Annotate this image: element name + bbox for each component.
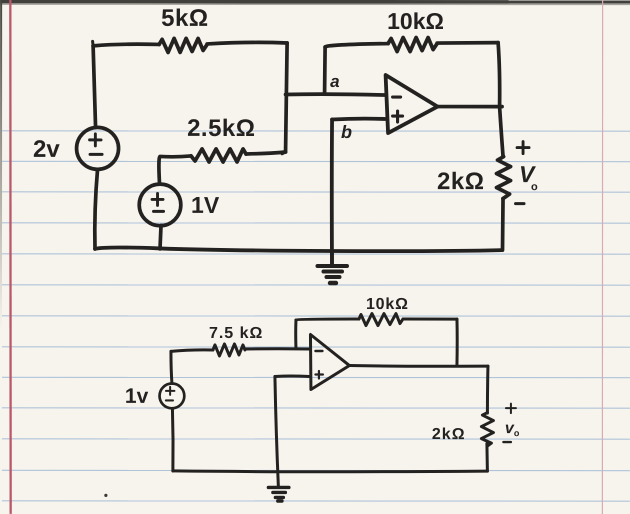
svg-text:2v: 2v — [33, 136, 60, 163]
wire non-inverting vertical down to ground — [275, 376, 279, 487]
svg-text:2.5kΩ: 2.5kΩ — [187, 115, 255, 142]
svg-text:a: a — [330, 72, 339, 91]
wire feedback left vertical up from input — [294, 320, 297, 349]
svg-text:7.5 kΩ: 7.5 kΩ — [209, 325, 263, 342]
wire node b vertical down to ground rail — [330, 120, 334, 266]
V1 plus symbol — [90, 134, 102, 146]
stray pencil dot — [104, 494, 107, 497]
wire right vertical from TR down to 2.5k level — [286, 43, 288, 152]
resistor R4 2kΩ vertical zigzag — [497, 157, 511, 199]
svg-text:o: o — [514, 428, 520, 438]
voltage source V2 1V circle — [139, 184, 181, 226]
wire 10k bottom-left lead — [296, 319, 359, 320]
resistor R1 5kΩ zigzag — [159, 38, 207, 52]
V1 minus symbol — [90, 153, 102, 156]
resistor R5 7.5kΩ zigzag — [213, 344, 245, 356]
wire op-amp U1 output to right vertical — [438, 105, 502, 109]
V3 plus symbol — [166, 387, 175, 395]
label minus of Vo — [516, 202, 524, 205]
wire feedback right vertical down to output — [455, 319, 458, 366]
wire left vertical from TL down to source V1 — [93, 46, 96, 128]
op-amp U2 triangle — [310, 334, 349, 389]
wire below V2 down to bottom rail — [160, 225, 161, 249]
wire below R7 to bottom rail — [485, 444, 489, 472]
wire top-left horizontal (node TL to R1 left lead) — [93, 44, 159, 46]
wire node a horizontal into op-amp inverting input — [286, 92, 386, 97]
svg-text:5kΩ: 5kΩ — [161, 5, 208, 32]
svg-text:2kΩ: 2kΩ — [437, 168, 484, 195]
wire 10k right lead to right feedback vertical — [403, 318, 457, 321]
wire R1 right lead to node TR — [207, 42, 287, 44]
svg-text:1v: 1v — [125, 385, 149, 408]
wire op-amp U2 output to right vertical — [349, 364, 488, 368]
U1 minus input sign — [393, 95, 401, 98]
svg-text:2kΩ: 2kΩ — [432, 426, 466, 443]
svg-text:b: b — [341, 122, 352, 142]
U1 plus input sign — [393, 111, 403, 122]
resistor R7 2kΩ vertical zigzag — [481, 413, 493, 447]
resistor R2 2.5kΩ zigzag — [191, 149, 246, 162]
ground symbol top circuit — [330, 252, 334, 265]
wire R2 left lead and bend down to V2 — [159, 156, 191, 184]
U2 minus input sign — [315, 350, 322, 352]
wire R5 right lead to inverting input — [245, 347, 309, 350]
wire hook at 2.5k right vertical end — [282, 152, 286, 154]
label plus of Vo — [517, 142, 529, 154]
wire bottom rail of top circuit — [95, 247, 502, 251]
wire right vertical down to R7 — [486, 366, 490, 413]
svg-text:10kΩ: 10kΩ — [366, 296, 409, 313]
V3 minus symbol — [166, 399, 173, 401]
wire node b horizontal into op-amp non-inverting input — [332, 117, 386, 122]
wire 10k right lead to right vertical — [437, 41, 498, 45]
V2 minus symbol — [154, 210, 164, 213]
svg-text:10kΩ: 10kΩ — [387, 8, 444, 34]
wire below V1 down to bottom rail — [95, 169, 98, 249]
label plus of Vo bottom — [506, 404, 516, 414]
ground symbol bottom circuit — [268, 486, 289, 489]
wire bottom rail of bottom circuit — [173, 469, 488, 473]
wire right vertical from 10k down to output node — [498, 43, 500, 107]
wire non-inverting input horizontal — [275, 374, 310, 378]
voltage source V1 2V circle — [77, 127, 119, 169]
wire 10k top left lead — [325, 44, 388, 48]
svg-text:o: o — [531, 181, 538, 193]
V2 plus symbol — [152, 193, 163, 205]
wire feedback left vertical (a node up to 10k) — [323, 47, 327, 93]
svg-text:1V: 1V — [191, 192, 220, 218]
wire right vertical from output node down to R4 — [500, 107, 504, 157]
wire below V3 down to bottom rail — [171, 408, 175, 471]
op-amp U1 triangle — [386, 75, 438, 133]
label minus of Vo bottom — [503, 441, 511, 443]
wire input left lead to R5 — [171, 350, 213, 352]
wire V3 top up to input level — [171, 351, 172, 383]
resistor R2 2.5kΩ: right lead — [246, 152, 286, 154]
resistor R3 10kΩ zigzag — [388, 38, 437, 52]
wire tick at top-left corner — [91, 41, 95, 46]
resistor R6 10kΩ zigzag — [359, 314, 403, 326]
voltage source V3 1V circle — [160, 384, 185, 409]
U2 plus input sign — [315, 371, 323, 379]
wire below R4 down to bottom rail — [501, 199, 505, 251]
